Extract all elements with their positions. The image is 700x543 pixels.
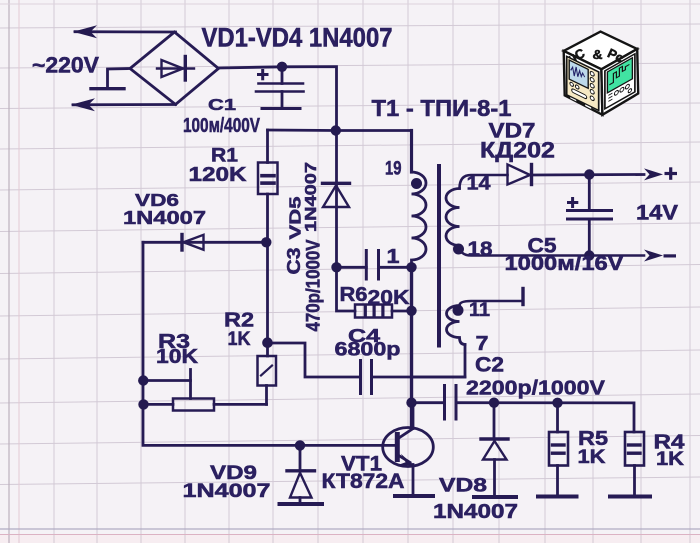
wire AC line top with arrow to bridge (75, 30, 176, 33)
svg-text:14: 14 (467, 173, 491, 195)
wire R2 top node to C4 (268, 343, 361, 377)
transistor VT1 (383, 403, 434, 496)
transformer T1 secondary winding pins 14-18 (446, 189, 460, 246)
mains plug symbol ~220V input (91, 69, 130, 89)
capacitor C2 (445, 386, 457, 420)
transformer T1 primary winding pins 19-1 (412, 172, 427, 267)
wire AC line bottom with arrow to bridge (73, 103, 176, 106)
output minus sign (664, 254, 677, 257)
node VD5 cathode bus (331, 125, 341, 135)
R5 rail bar (538, 495, 577, 499)
wire C2 to VD8 R5 R4 (456, 403, 634, 432)
wire transformer pin 14 lead (460, 175, 508, 189)
wire bus to transformer pin 19 (268, 129, 412, 132)
wire pin 7 jog to collector node (412, 376, 466, 379)
wire left rail down to VT1 base (143, 242, 397, 445)
svg-text:1N4007: 1N4007 (433, 501, 518, 523)
pin 11 open terminal bar (521, 289, 524, 305)
svg-text:7: 7 (476, 332, 489, 355)
arrowhead output plus (644, 168, 663, 180)
node pin 1 C3 right (406, 262, 416, 272)
resistor R3 with wiper tap (143, 370, 267, 411)
phase dot pin 18 (453, 244, 464, 255)
diode VD8 (481, 403, 508, 496)
arrowhead output minus (644, 250, 663, 262)
wire transformer pin 11 lead (460, 301, 524, 306)
wire main vertical to transformer pin 19 (410, 131, 413, 173)
wire C4 to collector line and transformer pin 7 (372, 345, 466, 378)
node C5 plus output (584, 169, 594, 179)
wire rectified plus bus from bridge to corner above VD5 (219, 67, 337, 131)
svg-text:R6: R6 (340, 283, 368, 306)
svg-text:1N4007: 1N4007 (183, 480, 271, 502)
transformer T1 auxiliary winding pins 11-7 (447, 306, 466, 345)
node VD9 base rail (295, 440, 305, 450)
capacitor C3 (337, 251, 412, 280)
wire collector node to C2 (412, 401, 445, 404)
node C1 top (277, 62, 287, 72)
VT1 emitter arrow (399, 454, 415, 466)
svg-text:2200p/1000V: 2200p/1000V (466, 377, 605, 400)
phase dot pin 11 (453, 305, 464, 316)
svg-text:C1: C1 (208, 97, 236, 114)
R4 rail bar (610, 495, 650, 499)
svg-text:19: 19 (385, 158, 402, 180)
svg-text:VD1-VD4 1N4007: VD1-VD4 1N4007 (202, 23, 393, 53)
wire pin 1 node down to VT1 collector (410, 267, 413, 426)
wire transformer pin 18 lead to minus output (460, 246, 645, 256)
VD8 rail bar (474, 495, 516, 499)
resistor R2 (258, 242, 277, 404)
arrowhead AC top (73, 25, 97, 38)
svg-text:1000м/16V: 1000м/16V (505, 253, 625, 275)
output plus sign (665, 167, 678, 180)
C1 polarity plus sign (257, 69, 269, 80)
svg-text:КД202: КД202 (480, 138, 555, 163)
capacitor C5 electrolytic (568, 175, 612, 256)
node R3 wiper left rail (138, 375, 148, 385)
VT1 emitter rail bar (395, 494, 433, 498)
svg-text:1K: 1K (578, 446, 606, 468)
svg-text:~220V: ~220V (32, 53, 99, 78)
svg-text:Т1 - ТПИ-8-1: Т1 - ТПИ-8-1 (372, 95, 512, 121)
C5 polarity plus sign (567, 197, 578, 208)
svg-text:1K: 1K (656, 448, 684, 470)
resistor R4 (625, 432, 644, 496)
node R2 top (262, 337, 273, 348)
svg-text:470p/1000V: 470p/1000V (304, 239, 325, 331)
node R6 right (406, 306, 416, 316)
svg-text:VD8: VD8 (439, 476, 487, 497)
bridge rectifier internal diode (157, 57, 194, 81)
logo cube uC and Pc (564, 32, 639, 115)
node C5 minus output (584, 250, 594, 260)
svg-text:VD5: VD5 (288, 196, 305, 239)
resistor R6 (337, 267, 412, 317)
svg-text:6800p: 6800p (335, 340, 401, 361)
node VT1 collector (406, 398, 416, 408)
diode VD7 (508, 165, 532, 185)
svg-text:10K: 10K (156, 346, 199, 368)
node R5 top (552, 398, 562, 408)
svg-text:1K: 1K (228, 329, 251, 350)
svg-text:КТ872А: КТ872А (322, 470, 405, 493)
capacitor C4 (361, 361, 372, 394)
VD9 rail bar (280, 502, 323, 506)
transformer T1 core (437, 166, 441, 346)
svg-text:18: 18 (468, 239, 493, 261)
svg-text:&: & (593, 47, 603, 62)
phase dot pin 19 (411, 178, 422, 189)
node R1 VD6 junction (261, 237, 271, 247)
svg-text:1N4007: 1N4007 (303, 162, 320, 232)
resistor R1 (258, 130, 278, 242)
resistor R5 (549, 403, 568, 497)
node VD5 anode C3 left (331, 262, 341, 272)
svg-text:100м/400V: 100м/400V (183, 115, 261, 137)
diode VD5 (323, 131, 350, 268)
node VD8 top (489, 398, 499, 408)
arrowhead AC bottom (71, 98, 95, 111)
wire VD7 cathode to plus output arrow (532, 173, 645, 176)
diode VD9 (287, 445, 315, 503)
svg-text:C2: C2 (475, 354, 504, 377)
node R3 left rail (138, 399, 148, 409)
diode VD6 (143, 235, 266, 251)
svg-text:14V: 14V (636, 201, 679, 225)
svg-text:20K: 20K (368, 286, 410, 309)
capacitor C1 electrolytic (256, 67, 304, 109)
svg-text:1N4007: 1N4007 (123, 207, 206, 228)
svg-text:11: 11 (469, 300, 490, 321)
svg-text:C3: C3 (284, 248, 304, 275)
bridge rectifier VD1-VD4 diamond (130, 32, 219, 105)
svg-text:1: 1 (387, 246, 400, 268)
svg-text:120K: 120K (189, 164, 248, 186)
